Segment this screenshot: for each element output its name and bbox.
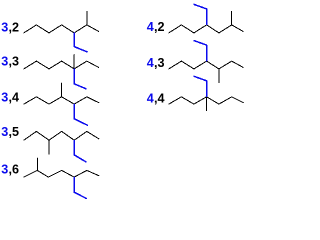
svg-text:,2: ,2 — [154, 20, 165, 34]
svg-text:4: 4 — [147, 56, 154, 70]
molecule 4,2: highlighted ethyl group (blue) — [194, 4, 207, 24]
molecule 4,4 (4-ethyl-4-methylheptane): methyl branch — [206, 97, 208, 111]
molecule 4,2 (4-ethyl-2-methylheptane): main chain — [169, 25, 244, 33]
molecule 3,6 (3-ethyl-6-methylheptane): methyl branch — [36, 158, 38, 170]
molecule 4,3 (4-ethyl-3-methylheptane): main chain — [169, 61, 244, 69]
molecule 3,3: highlighted ethyl group (blue) — [74, 69, 86, 89]
molecule 3,5 (3-ethyl-5-methylheptane): methyl branch — [48, 140, 50, 154]
svg-text:3: 3 — [1, 125, 8, 139]
skeletal-formula diagram: ethyl/methyl heptane isomers — [0, 0, 249, 204]
molecule 3,6: highlighted ethyl group (blue) — [74, 177, 86, 198]
molecule 3,4 (3-ethyl-4-methylheptane): methyl branch — [61, 83, 63, 97]
svg-text:,3: ,3 — [154, 56, 165, 70]
molecule 4,2 (4-ethyl-2-methylheptane): methyl branch — [231, 11, 233, 25]
molecule 3,5 (3-ethyl-5-methylheptane): main chain — [24, 131, 99, 140]
svg-text:,3: ,3 — [9, 55, 20, 69]
molecule 4,4 (4-ethyl-4-methylheptane): main chain — [169, 97, 244, 104]
svg-text:,5: ,5 — [9, 125, 20, 139]
svg-text:3: 3 — [1, 55, 8, 69]
molecule 3,2 (3-ethyl-2-methylheptane): main chain — [24, 25, 99, 33]
molecule 4,3 (4-ethyl-3-methylheptane): methyl branch — [218, 69, 220, 83]
svg-text:,6: ,6 — [9, 163, 20, 177]
molecule 4,4: highlighted ethyl group (blue) — [194, 76, 207, 96]
molecule 3,4 (3-ethyl-4-methylheptane): main chain — [24, 97, 99, 104]
molecule 3,2 (3-ethyl-2-methylheptane): methyl branch — [86, 11, 88, 25]
molecule 3,4: highlighted ethyl group (blue) — [74, 104, 87, 125]
molecule 3,2: highlighted ethyl group (blue) — [74, 33, 87, 52]
svg-text:3: 3 — [1, 163, 8, 177]
svg-text:3: 3 — [1, 90, 8, 104]
svg-text:4: 4 — [147, 20, 154, 34]
svg-text:,4: ,4 — [9, 90, 20, 104]
svg-text:,2: ,2 — [9, 20, 20, 34]
molecule 4,3: highlighted ethyl group (blue) — [194, 41, 207, 61]
molecule 3,5: highlighted ethyl group (blue) — [74, 141, 86, 162]
svg-text:4: 4 — [147, 91, 154, 105]
svg-text:,4: ,4 — [154, 91, 165, 105]
molecule 3,3 (3-ethyl-3-methylheptane): main chain — [24, 61, 99, 69]
svg-text:3: 3 — [1, 20, 8, 34]
molecule 3,3 (3-ethyl-3-methylheptane): methyl branch — [73, 55, 75, 69]
molecule 3,6 (3-ethyl-6-methylheptane): main chain — [24, 170, 99, 177]
